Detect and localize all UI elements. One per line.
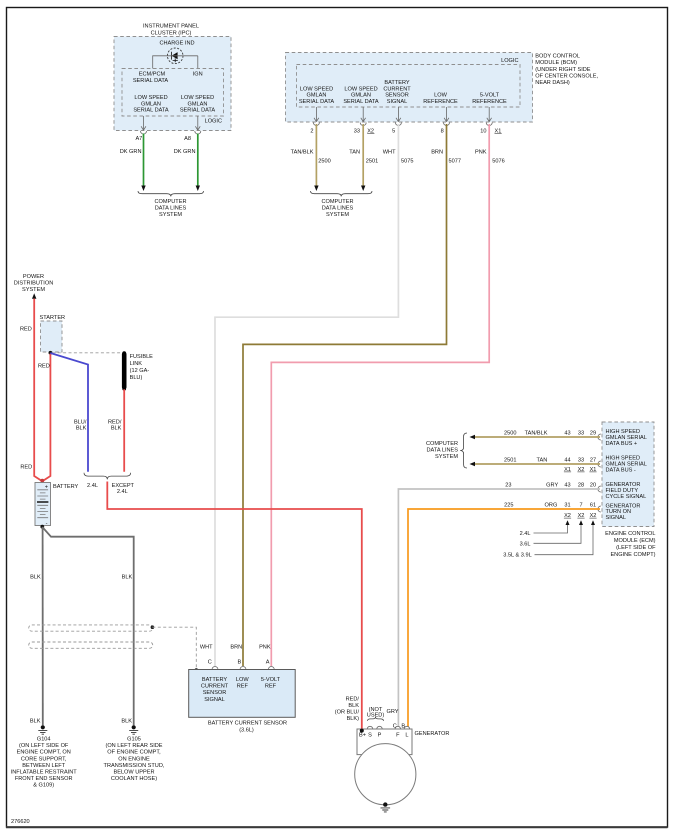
wire BLK battery to G105 <box>42 527 133 725</box>
generator case ground <box>381 802 391 812</box>
svg-text:3.6L: 3.6L <box>520 541 531 547</box>
svg-text:BELOW UPPER: BELOW UPPER <box>113 770 154 776</box>
BCM location note <box>535 54 598 86</box>
svg-text:44: 44 <box>564 458 570 464</box>
arrow to power distribution <box>32 293 36 299</box>
svg-text:CURRENT: CURRENT <box>383 86 411 92</box>
svg-text:BLK: BLK <box>76 426 87 432</box>
svg-text:BRN: BRN <box>431 149 443 155</box>
BCM logic inner box <box>297 65 521 108</box>
svg-text:MODULE (ECM): MODULE (ECM) <box>614 538 656 544</box>
svg-text:276620: 276620 <box>11 819 30 825</box>
svg-text:GMLAN: GMLAN <box>141 101 161 107</box>
svg-text:OF CENTER CONSOLE,: OF CENTER CONSOLE, <box>535 73 598 79</box>
node generator B+ <box>360 729 364 733</box>
svg-text:RED: RED <box>38 364 50 370</box>
svg-text:23: 23 <box>505 483 511 489</box>
svg-text:TAN: TAN <box>349 149 360 155</box>
svg-text:SERIAL DATA: SERIAL DATA <box>299 99 335 105</box>
svg-text:DK GRN: DK GRN <box>120 149 142 155</box>
cable sheath lower <box>29 642 153 648</box>
brace not-used pins <box>368 717 384 721</box>
node sheath tap <box>151 625 155 629</box>
svg-text:5076: 5076 <box>492 158 504 164</box>
svg-text:ON ENGINE: ON ENGINE <box>118 756 150 762</box>
svg-text:CLUSTER (IPC): CLUSTER (IPC) <box>151 30 192 36</box>
svg-text:BATTERY: BATTERY <box>384 80 410 86</box>
svg-text:43: 43 <box>564 483 570 489</box>
generator body <box>357 729 412 755</box>
wire BLK battery to G104 <box>42 527 44 725</box>
svg-text:33: 33 <box>578 458 584 464</box>
svg-text:5077: 5077 <box>449 158 461 164</box>
svg-text:BLK: BLK <box>30 718 41 724</box>
svg-text:225: 225 <box>504 503 513 509</box>
generator connector arcs <box>367 726 372 729</box>
svg-text:COOLANT HOSE): COOLANT HOSE) <box>111 776 157 782</box>
wire DK GRN right <box>197 134 199 187</box>
svg-text:ECM/PCM: ECM/PCM <box>139 71 166 77</box>
svg-text:A7: A7 <box>135 136 142 142</box>
starter box <box>41 321 63 352</box>
svg-text:PNK: PNK <box>259 644 271 650</box>
BCM pin 8 stub <box>441 107 450 134</box>
svg-text:CHARGE IND: CHARGE IND <box>159 41 194 47</box>
svg-text:2.4L: 2.4L <box>117 489 128 495</box>
svg-text:& G109): & G109) <box>33 783 54 789</box>
svg-text:(3.6L): (3.6L) <box>239 727 254 733</box>
svg-text:LOW SPEED: LOW SPEED <box>134 95 167 101</box>
svg-text:ENGINE CONTROL: ENGINE CONTROL <box>605 531 655 537</box>
svg-text:SYSTEM: SYSTEM <box>22 287 45 293</box>
svg-text:F: F <box>396 732 400 738</box>
svg-text:28: 28 <box>578 483 584 489</box>
svg-text:SIGNAL: SIGNAL <box>387 99 408 105</box>
svg-text:A: A <box>266 659 270 665</box>
svg-text:WHT: WHT <box>383 149 396 155</box>
svg-text:10: 10 <box>480 128 486 134</box>
IPC box (instrument panel cluster) <box>114 37 231 131</box>
svg-text:RED/: RED/ <box>108 419 122 425</box>
svg-text:2500: 2500 <box>318 158 330 164</box>
svg-text:BATTERY: BATTERY <box>202 677 228 683</box>
svg-text:31: 31 <box>564 503 570 509</box>
svg-text:-: - <box>46 521 48 527</box>
svg-text:BODY CONTROL: BODY CONTROL <box>535 54 580 60</box>
svg-text:27: 27 <box>590 458 596 464</box>
battery <box>35 483 79 527</box>
wire DK GRN left <box>143 134 145 187</box>
svg-text:INSTRUMENT PANEL: INSTRUMENT PANEL <box>143 24 199 30</box>
BCM pin 5 stub <box>392 107 401 134</box>
svg-text:BLK): BLK) <box>347 716 360 722</box>
svg-text:SENSOR: SENSOR <box>385 93 409 99</box>
svg-text:2.4L: 2.4L <box>87 483 98 489</box>
wire PNK 5076 <box>271 124 489 666</box>
wire RED battery to power distribution <box>34 299 42 482</box>
wire TAN/BLK 2500 to ECM <box>475 436 601 438</box>
svg-text:SYSTEM: SYSTEM <box>159 212 182 218</box>
svg-text:MODULE (BCM): MODULE (BCM) <box>535 60 577 66</box>
svg-text:CURRENT: CURRENT <box>201 684 229 690</box>
engine variant 3.5L &amp; 3.9L line <box>503 520 595 558</box>
wire lamp to IGN <box>197 56 199 69</box>
ground G105 <box>129 725 138 734</box>
svg-text:B: B <box>401 723 405 729</box>
wire RED/BLK from fusible link <box>123 389 125 472</box>
svg-text:33: 33 <box>578 431 584 437</box>
dashed wire starter to fusible link <box>52 352 122 354</box>
svg-text:RED/: RED/ <box>346 696 360 702</box>
svg-text:GMLAN: GMLAN <box>188 101 208 107</box>
svg-text:BATTERY CURRENT SENSOR: BATTERY CURRENT SENSOR <box>208 721 287 727</box>
svg-text:LOW: LOW <box>236 677 249 683</box>
svg-text:IGN: IGN <box>193 71 203 77</box>
svg-text:8: 8 <box>441 128 444 134</box>
svg-text:5075: 5075 <box>401 158 413 164</box>
svg-text:P: P <box>378 732 382 738</box>
svg-text:COMPUTER: COMPUTER <box>321 199 353 205</box>
wire TAN/BLK 2500 <box>315 124 317 186</box>
svg-text:LOW SPEED: LOW SPEED <box>344 86 377 92</box>
svg-text:NEAR DASH): NEAR DASH) <box>535 80 570 86</box>
svg-text:61: 61 <box>590 503 596 509</box>
svg-text:(LEFT SIDE OF: (LEFT SIDE OF <box>616 545 656 551</box>
wire TAN 2501 <box>362 124 364 186</box>
svg-text:DK GRN: DK GRN <box>174 149 196 155</box>
ground G104 <box>38 725 47 734</box>
svg-text:POWER: POWER <box>23 274 44 280</box>
svg-text:FRONT END SENSOR: FRONT END SENSOR <box>15 776 73 782</box>
svg-text:B+: B+ <box>359 732 366 738</box>
node battery negative <box>40 525 44 529</box>
svg-text:5: 5 <box>392 128 395 134</box>
svg-text:BLK: BLK <box>121 718 132 724</box>
svg-text:DATA LINES: DATA LINES <box>322 205 354 211</box>
wire RED starter to battery <box>42 354 50 482</box>
brace 2.4L / except 2.4L <box>84 473 131 480</box>
svg-text:2501: 2501 <box>504 458 516 464</box>
svg-text:GMLAN: GMLAN <box>351 93 371 99</box>
svg-text:COMPUTER: COMPUTER <box>426 441 458 447</box>
wire lamp to ECM/PCM serial data <box>153 56 198 69</box>
svg-text:(OR BLU/: (OR BLU/ <box>335 710 360 716</box>
G104 label <box>11 737 78 789</box>
engine variant 3.6L line <box>520 520 583 547</box>
svg-text:LINK: LINK <box>130 361 143 367</box>
svg-text:DISTRIBUTION: DISTRIBUTION <box>14 280 53 286</box>
svg-text:SERIAL DATA: SERIAL DATA <box>133 108 169 114</box>
brace computer data lines (IPC) <box>138 191 204 196</box>
svg-text:2501: 2501 <box>366 158 378 164</box>
BCM box (body control module) <box>286 53 533 123</box>
svg-text:LOW SPEED: LOW SPEED <box>300 86 333 92</box>
svg-text:SYSTEM: SYSTEM <box>326 212 349 218</box>
svg-text:LOGIC: LOGIC <box>205 118 222 124</box>
wire BLU/BLK from starter <box>50 353 88 472</box>
svg-text:LOW: LOW <box>434 93 447 99</box>
svg-text:2500: 2500 <box>504 431 516 437</box>
node battery positive <box>40 479 44 483</box>
wire BRN 5077 <box>243 124 447 666</box>
power distribution system label <box>14 274 53 293</box>
generator wire label RED/BLK <box>335 696 360 722</box>
svg-text:BLK: BLK <box>111 426 122 432</box>
svg-text:BETWEEN LEFT: BETWEEN LEFT <box>22 763 65 769</box>
svg-text:+: + <box>45 485 48 491</box>
svg-text:SERIAL DATA: SERIAL DATA <box>180 108 216 114</box>
svg-text:REF: REF <box>265 684 277 690</box>
svg-text:BLK: BLK <box>30 575 41 581</box>
svg-text:(12 GA-: (12 GA- <box>130 368 150 374</box>
svg-text:BATTERY: BATTERY <box>53 484 79 490</box>
svg-text:LOW SPEED: LOW SPEED <box>181 95 214 101</box>
svg-text:TAN/BLK: TAN/BLK <box>525 431 548 437</box>
svg-text:STARTER: STARTER <box>40 315 66 321</box>
svg-text:ENGINE COMPT, ON: ENGINE COMPT, ON <box>17 750 71 756</box>
svg-text:LOGIC: LOGIC <box>501 58 518 64</box>
BCM pin 2 stub <box>310 107 319 134</box>
svg-text:GENERATOR: GENERATOR <box>415 731 450 737</box>
svg-text:SENSOR: SENSOR <box>203 690 227 696</box>
svg-text:REF: REF <box>237 684 249 690</box>
svg-text:33: 33 <box>354 128 360 134</box>
generator case circle <box>355 744 416 805</box>
generator pin labels <box>359 732 408 738</box>
svg-text:(ON LEFT REAR SIDE: (ON LEFT REAR SIDE <box>105 743 162 749</box>
svg-text:SERIAL DATA: SERIAL DATA <box>343 99 379 105</box>
IPC pin A8 stub <box>184 116 201 142</box>
svg-text:BRN: BRN <box>230 644 242 650</box>
svg-text:SIGNAL: SIGNAL <box>204 697 225 703</box>
svg-text:OF ENGINE COMPT,: OF ENGINE COMPT, <box>107 750 161 756</box>
svg-text:5-VOLT: 5-VOLT <box>261 677 281 683</box>
svg-text:3.5L & 3.9L: 3.5L & 3.9L <box>503 553 531 559</box>
svg-text:5-VOLT: 5-VOLT <box>480 93 500 99</box>
brace computer data lines (BCM) <box>311 191 373 196</box>
svg-text:FUSIBLE: FUSIBLE <box>130 354 154 360</box>
wire WHT 5075 <box>215 124 398 666</box>
svg-text:DATA LINES: DATA LINES <box>155 205 187 211</box>
dashed wire sheath to sensor <box>152 627 196 668</box>
svg-text:43: 43 <box>564 431 570 437</box>
node sensor case <box>195 668 199 672</box>
svg-text:7: 7 <box>579 503 582 509</box>
svg-text:S: S <box>368 732 372 738</box>
svg-text:DATA LINES: DATA LINES <box>427 448 459 454</box>
cable sheath upper <box>29 625 153 631</box>
svg-text:ENGINE COMPT): ENGINE COMPT) <box>610 552 655 558</box>
BCM pin 33 X2 stub <box>354 107 375 134</box>
svg-text:BLU): BLU) <box>130 375 143 381</box>
battery current sensor box U2 <box>189 670 296 718</box>
svg-text:G105: G105 <box>127 737 141 743</box>
svg-text:RED: RED <box>20 464 32 470</box>
svg-text:GRY: GRY <box>387 709 399 715</box>
svg-text:DATA BUS +: DATA BUS + <box>606 441 638 447</box>
svg-text:A8: A8 <box>184 136 191 142</box>
svg-text:20: 20 <box>590 483 596 489</box>
svg-text:2.4L: 2.4L <box>520 531 531 537</box>
svg-text:ORG: ORG <box>545 503 558 509</box>
svg-text:CORE SUPPORT,: CORE SUPPORT, <box>21 756 67 762</box>
charge indicator lamp <box>167 48 183 64</box>
svg-text:GRY: GRY <box>546 483 558 489</box>
svg-text:(UNDER RIGHT SIDE: (UNDER RIGHT SIDE <box>535 67 590 73</box>
svg-text:PNK: PNK <box>475 149 487 155</box>
svg-text:SIGNAL: SIGNAL <box>606 515 627 521</box>
ECM location note <box>605 531 656 558</box>
wire ORG 225 to generator L <box>408 509 600 727</box>
IPC title <box>143 24 199 37</box>
wire TAN 2501 to ECM <box>475 463 601 465</box>
svg-text:L: L <box>405 732 408 738</box>
svg-text:WHT: WHT <box>200 644 213 650</box>
ECM connector arcs <box>598 434 601 440</box>
svg-text:REFERENCE: REFERENCE <box>472 99 507 105</box>
svg-text:C: C <box>208 659 212 665</box>
svg-text:TAN: TAN <box>537 458 548 464</box>
wire RED to generator B+ <box>107 482 361 731</box>
sensor connector arcs <box>212 667 218 670</box>
wire GRY 23 to generator F <box>398 489 600 727</box>
svg-text:TAN/BLK: TAN/BLK <box>291 149 314 155</box>
svg-text:GMLAN: GMLAN <box>307 93 327 99</box>
svg-text:BLU/: BLU/ <box>74 419 87 425</box>
node starter B+ <box>49 351 53 355</box>
svg-text:RED: RED <box>20 326 32 332</box>
svg-text:TRANSMISSION STUD,: TRANSMISSION STUD, <box>104 763 165 769</box>
svg-text:G104: G104 <box>37 737 51 743</box>
svg-text:(ON LEFT SIDE OF: (ON LEFT SIDE OF <box>19 743 69 749</box>
svg-text:SERIAL DATA: SERIAL DATA <box>133 78 169 84</box>
engine variant 2.4L line <box>520 520 570 537</box>
brace computer data lines (ECM side) <box>460 433 467 468</box>
svg-text:2: 2 <box>310 128 313 134</box>
svg-text:CYCLE SIGNAL: CYCLE SIGNAL <box>606 494 647 500</box>
svg-text:REFERENCE: REFERENCE <box>423 99 458 105</box>
svg-text:BLK: BLK <box>122 575 133 581</box>
svg-text:SYSTEM: SYSTEM <box>435 454 458 460</box>
G105 label <box>104 737 165 783</box>
fusible link (12 GA BLU) <box>122 351 153 390</box>
IPC logic inner box <box>122 69 224 117</box>
BCM pin 10 X1 stub <box>480 107 501 134</box>
svg-text:B: B <box>237 659 241 665</box>
ECM box (engine control module) <box>602 422 654 527</box>
svg-text:DATA BUS -: DATA BUS - <box>606 467 636 473</box>
svg-text:INFLATABLE RESTRAINT: INFLATABLE RESTRAINT <box>11 770 78 776</box>
svg-text:BLK: BLK <box>348 703 359 709</box>
svg-text:COMPUTER: COMPUTER <box>154 199 186 205</box>
IPC pin A7 stub <box>135 116 146 142</box>
svg-text:29: 29 <box>590 431 596 437</box>
